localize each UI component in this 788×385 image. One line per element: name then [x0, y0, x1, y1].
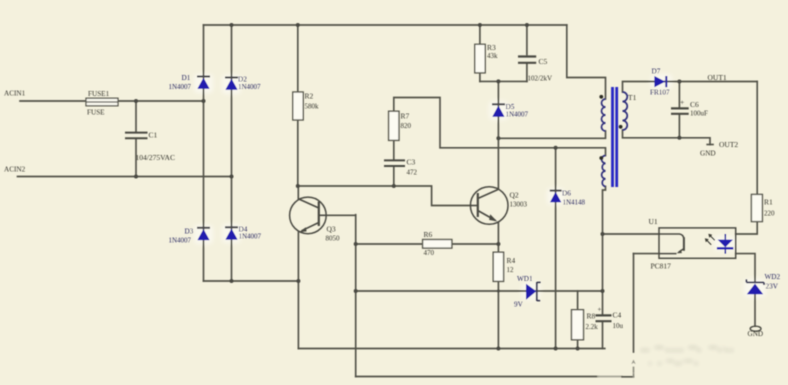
wire U1 pin5 to WD2 [736, 254, 755, 282]
svg-text:D3: D3 [185, 228, 194, 236]
svg-text:100uF: 100uF [690, 110, 708, 118]
wire B faded segment [598, 376, 622, 378]
svg-text:R1: R1 [764, 198, 773, 207]
svg-text:WD2: WD2 [765, 273, 781, 281]
transformer T1 primary winding [602, 99, 606, 131]
svg-text:10u: 10u [613, 322, 624, 330]
resistor R4 [493, 252, 503, 281]
wire B bottom feedback [356, 376, 598, 378]
wire ACIN1 line [20, 100, 204, 102]
svg-text:R3: R3 [487, 43, 496, 52]
faint watermark remnant [641, 343, 739, 366]
svg-text:Q2: Q2 [510, 191, 519, 200]
svg-text:C4: C4 [613, 311, 622, 320]
junction C6 OUT2 [677, 136, 681, 140]
svg-text:C6: C6 [690, 100, 699, 109]
svg-text:C1: C1 [149, 131, 158, 140]
junction C1 bottom [134, 175, 138, 179]
junction top rail R3 [478, 23, 482, 27]
junction D7 C6 [677, 80, 681, 84]
svg-text:FR107: FR107 [650, 89, 670, 97]
svg-text:C5: C5 [539, 57, 548, 66]
wire OUT2 ground tick [707, 144, 713, 146]
transformer T1 primary phase dot [599, 95, 603, 99]
svg-text:FUSE1: FUSE1 [88, 90, 110, 98]
wire D5 to primary bottom [498, 131, 605, 138]
resistor R2 [293, 92, 303, 120]
svg-text:23V: 23V [766, 283, 779, 291]
zener WD2 [746, 279, 764, 294]
junction R4 WD1 row [497, 290, 500, 293]
junction drive node C3 [392, 184, 396, 188]
optocoupler U1 light arrows [705, 234, 715, 245]
ground symbol WD2 [750, 326, 761, 331]
wire R3 leads [479, 25, 481, 81]
svg-text:T1: T1 [628, 93, 637, 102]
resistor R6 [423, 240, 452, 249]
wire R7 bottom to C3 [393, 141, 395, 187]
svg-text:GND: GND [700, 150, 716, 158]
wire B corner segment [622, 376, 634, 378]
wire R8 leads [577, 291, 579, 349]
capacitor C5 [518, 57, 536, 63]
wire U1 pin3 lead [603, 233, 660, 235]
capacitor C4 [596, 315, 612, 321]
wire C5 leads [526, 25, 528, 81]
wire Q3 base node vertical [355, 215, 357, 377]
diode halos [194, 74, 766, 300]
svg-text:R6: R6 [424, 230, 433, 239]
diode D1 [197, 77, 210, 89]
resistor R8 [572, 310, 584, 340]
junction top rail R2 [296, 23, 300, 27]
wire secondary bottom OUT2 row [623, 130, 711, 145]
wire bridge left leg D1 D3 [203, 25, 205, 281]
wire Q3 base lead [326, 214, 355, 216]
transformer T1 secondary winding [623, 92, 628, 130]
svg-text:820: 820 [401, 122, 412, 130]
svg-text:102/2kV: 102/2kV [528, 75, 553, 83]
svg-text:D7: D7 [652, 68, 661, 76]
junction bridge bottom emitter [296, 279, 300, 283]
wire WD2 to ground [754, 295, 756, 327]
junction D5 bottom collector [496, 136, 500, 140]
fuse FUSE1 [86, 98, 118, 106]
wire Q2 collector [497, 138, 499, 189]
junction Q3 base R6 [354, 242, 358, 246]
junction D6 aux row [554, 146, 558, 150]
capacitor C3 [384, 160, 405, 166]
wire aux bottom to C4 [603, 187, 606, 316]
transistor Q2 [470, 187, 508, 225]
diode D7 [654, 76, 666, 87]
svg-text:8050: 8050 [326, 235, 341, 243]
wire C6 leads [678, 82, 680, 138]
junction ACIN1 at D1 leg [202, 99, 206, 103]
optocoupler U1 phototransistor [659, 234, 684, 254]
junction ACIN2 at D2 leg [230, 175, 234, 179]
svg-text:1N4148: 1N4148 [563, 199, 586, 207]
diode D2 [225, 78, 238, 90]
junction snubber D5 top [496, 79, 500, 83]
svg-text:43k: 43k [487, 52, 498, 60]
junction D6 wire A [554, 347, 558, 351]
wire bridge bottom rail [204, 280, 299, 282]
resistor R3 [475, 44, 485, 73]
capacitor C1 [125, 133, 148, 139]
wire U1 pin4 riser [633, 254, 635, 352]
svg-text:580k: 580k [305, 103, 320, 111]
svg-text:D6: D6 [562, 190, 571, 198]
wire C4 bottom to wire A [602, 322, 604, 349]
svg-text:2.2k: 2.2k [586, 323, 599, 331]
svg-text:R4: R4 [507, 256, 516, 265]
wire secondary top OUT1 row [623, 82, 758, 93]
svg-text:+: + [680, 98, 684, 107]
svg-text:R7: R7 [401, 112, 410, 121]
wire top rail to primary top [567, 25, 606, 99]
zener WD1 [526, 282, 541, 301]
junction top rail C5 [525, 23, 529, 27]
svg-text:1N4007: 1N4007 [169, 83, 192, 91]
svg-text:1N4007: 1N4007 [239, 233, 262, 241]
wire R2 leg [297, 25, 299, 186]
wire drive node R2 C3 to Q2 base [298, 186, 471, 206]
junction WD1 C4 [601, 289, 605, 293]
transformer T1 core [611, 87, 618, 187]
wire C1 leads [135, 101, 137, 177]
wire R3 C5 bottom row [480, 80, 527, 82]
svg-text:。。一 。，，，一。 一，·。，: 。。一 。，，，一。 一，·。， [641, 343, 739, 353]
wire R1 bottom to U1 pin6 [736, 222, 758, 234]
junction bridge bottom D4 [230, 279, 234, 283]
optocoupler U1 box [659, 228, 736, 258]
junction top rail D2 [230, 23, 234, 27]
svg-text:1N4007: 1N4007 [506, 111, 529, 119]
wire Q3 collector [297, 186, 299, 199]
svg-text:1N4007: 1N4007 [238, 83, 261, 91]
svg-text:+: + [598, 306, 602, 314]
svg-text:104/275VAC: 104/275VAC [136, 153, 175, 162]
svg-text:13003: 13003 [510, 201, 528, 209]
transformer T1 secondary phase dot [619, 125, 623, 129]
junction aux U1 pin3 [601, 232, 605, 236]
wire bridge right leg D2 D4 [231, 25, 233, 281]
junction R4 wire A [496, 347, 500, 351]
svg-text:12: 12 [507, 266, 515, 274]
svg-text:1N4007: 1N4007 [169, 237, 192, 245]
svg-text:220: 220 [764, 210, 775, 218]
svg-text:ACIN1: ACIN1 [4, 90, 26, 98]
transformer T1 aux phase dot [599, 156, 603, 160]
svg-text:OUT2: OUT2 [719, 140, 738, 149]
wire A primary ground return [298, 348, 604, 350]
svg-text:9V: 9V [514, 301, 524, 309]
svg-text:D1: D1 [182, 74, 191, 82]
svg-text:U1: U1 [649, 217, 658, 226]
wire D5 branch [497, 81, 499, 138]
svg-text:C3: C3 [407, 158, 416, 167]
wire ACIN2 line [18, 176, 232, 178]
wire R4 bottom to wire A [497, 281, 499, 348]
junction C1 top [134, 99, 138, 103]
svg-text:R8: R8 [587, 312, 596, 321]
diode D6 [550, 191, 562, 203]
wire R6 row [356, 243, 499, 245]
svg-text:Q3: Q3 [327, 225, 336, 234]
svg-text:472: 472 [407, 169, 418, 177]
capacitor C6 [671, 108, 689, 113]
diode D3 [197, 228, 210, 240]
svg-text:OUT1: OUT1 [708, 73, 727, 82]
svg-text:R2: R2 [305, 92, 314, 101]
wire R7 top to aux winding [394, 98, 606, 156]
transistor Q3 [290, 197, 327, 234]
wire WD1 row [356, 290, 603, 292]
wire D6 branch [555, 148, 557, 349]
diode D5 [492, 104, 505, 117]
svg-text:470: 470 [424, 249, 435, 257]
svg-text:FUSE: FUSE [87, 109, 105, 117]
svg-text:PC817: PC817 [651, 262, 672, 271]
riser arrow artifact [631, 360, 635, 365]
wire Q3 emitter down to wire A [297, 233, 299, 349]
wire U1 pin4 riser faded artifact [633, 368, 635, 377]
resistor R1 [751, 194, 762, 221]
diode D4 [225, 227, 238, 239]
junction drive node R2 [296, 184, 300, 188]
junction R8 wire A [576, 347, 580, 351]
svg-text:， 。一，。·一 。: ， 。一，。·一 。 [648, 357, 703, 366]
optocoupler U1 led [717, 234, 733, 254]
resistor R7 [389, 111, 399, 140]
transformer T1 aux winding [602, 156, 606, 187]
svg-text:ACIN2: ACIN2 [4, 166, 26, 174]
wire top rail [204, 24, 567, 26]
junction Q3 base WD1 [354, 289, 358, 293]
wire Q2 emitter to R4 [497, 222, 499, 252]
svg-text:WD1: WD1 [517, 275, 533, 283]
junction R6 Q2 emitter [496, 242, 500, 246]
wire U1 pin4 lead [634, 253, 660, 255]
wire OUT1 down to R1 [756, 82, 758, 195]
svg-text:GND: GND [748, 330, 764, 338]
